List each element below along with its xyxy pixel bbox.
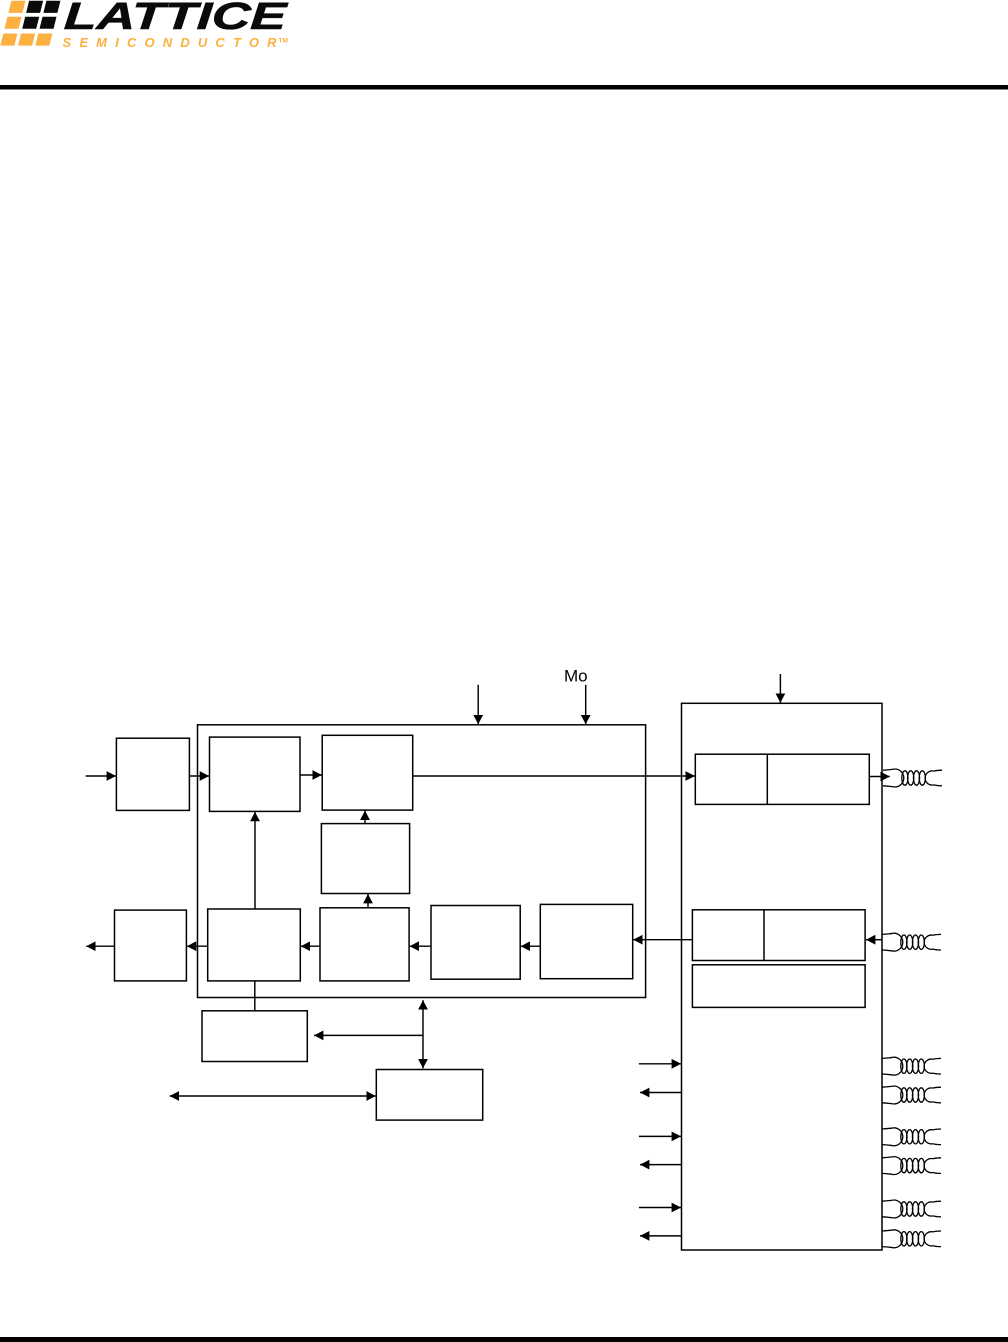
svg-text:Mo: Mo [564,667,588,686]
svg-text:LATTICE: LATTICE [63,0,290,38]
svg-text:TM: TM [279,38,288,45]
